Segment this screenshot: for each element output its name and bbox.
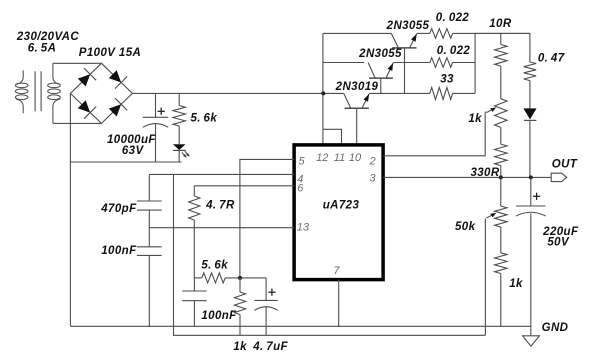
- wire C5 bottom lead: [265, 307, 267, 335]
- wire C1 bottom lead: [155, 124, 157, 162]
- potentiometer P1 1k body: [495, 99, 507, 128]
- wire R3 to right rail / top rail: [453, 32, 530, 34]
- wire R7 to OUT line: [500, 166, 502, 178]
- capacitor C2 470pF: [137, 201, 162, 210]
- wire pin 7 to ground rail: [338, 280, 340, 327]
- wire negative line under filter cap: [70, 161, 181, 163]
- svg-text:3: 3: [370, 173, 377, 185]
- LED D5 indicator: [173, 144, 186, 150]
- capacitor C5 4.7uF: [254, 300, 277, 310]
- svg-text:4. 7R: 4. 7R: [205, 200, 235, 212]
- transformer T1 secondary winding: [48, 63, 61, 123]
- resistor R5 33: [430, 87, 453, 99]
- svg-text:GND: GND: [542, 322, 569, 334]
- bridge rectifier P100V diamond: [70, 63, 132, 123]
- resistor R7 330R: [495, 144, 507, 166]
- capacitor C6 220uF 50V: [516, 206, 546, 216]
- wire lower return rail: [174, 174, 486, 335]
- svg-text:uA723: uA723: [323, 200, 360, 212]
- wire C4 bottom lead: [193, 301, 195, 327]
- wire P2 wiper drop: [484, 219, 486, 336]
- svg-text:0. 022: 0. 022: [436, 12, 470, 24]
- svg-text:2: 2: [369, 155, 376, 167]
- wire D6 to OUT line: [529, 120, 531, 177]
- OUT terminal: [551, 173, 567, 181]
- wire node B row (5.6k row): [194, 277, 202, 279]
- bridge diode D3 (left-bottom): [78, 100, 90, 112]
- resistor R6 10R: [495, 45, 507, 67]
- wire Q2 emitter to R4: [393, 62, 430, 64]
- svg-text:6. 5A: 6. 5A: [28, 43, 57, 55]
- svg-text:50V: 50V: [547, 236, 570, 248]
- capacitor C4 100nF (bottom): [182, 291, 207, 301]
- resistor R12 1k (bottom right): [495, 253, 507, 274]
- svg-text:2N3055: 2N3055: [386, 20, 430, 32]
- transistor Q1 2N3055 (top): [391, 33, 416, 48]
- wire row2 collector rail: [323, 62, 364, 64]
- resistor R4 0.022 (second): [430, 58, 453, 68]
- svg-text:4. 7uF: 4. 7uF: [252, 341, 288, 353]
- svg-text:100nF: 100nF: [201, 310, 237, 322]
- svg-text:1k: 1k: [468, 113, 482, 125]
- junction OUT/diode: [529, 175, 533, 179]
- svg-text:2N3055: 2N3055: [358, 48, 402, 60]
- op-amp regulator U1 uA723 body: [294, 145, 383, 280]
- svg-text:1k: 1k: [509, 278, 523, 290]
- potentiometer P2 wiper arrow: [487, 215, 493, 218]
- wire pin 6 line to R9: [194, 185, 294, 187]
- diode D6: [523, 108, 536, 119]
- capacitor C1 10000uF 63V: [143, 117, 169, 127]
- wire R5 to right rail: [453, 92, 476, 94]
- wire Q3 base to pin 10: [356, 108, 358, 145]
- wire P2 to R12: [500, 227, 502, 253]
- svg-text:10000uF: 10000uF: [107, 134, 156, 146]
- svg-text:5. 6k: 5. 6k: [190, 113, 217, 125]
- wire secondary to bridge AC top: [53, 62, 102, 64]
- wire C6 top lead: [530, 177, 532, 206]
- junction rail/V+: [321, 91, 325, 95]
- wire Q2 base drop: [380, 78, 382, 93]
- svg-text:7: 7: [333, 265, 340, 277]
- wire R11 top lead: [239, 278, 241, 292]
- potentiometer P2 50k body: [495, 206, 507, 227]
- wire pot P1 to R7 330R: [500, 127, 502, 144]
- wire row1 collector rail: [323, 32, 391, 34]
- wire C2 top lead: [148, 174, 150, 201]
- wire R1 top lead: [178, 93, 180, 105]
- wire C3 bottom lead: [148, 255, 150, 326]
- capacitor C3 100nF (left): [137, 247, 162, 256]
- svg-text:10: 10: [349, 152, 362, 164]
- resistor R11 1k (bottom middle): [234, 292, 245, 315]
- svg-text:2N3019: 2N3019: [335, 81, 379, 93]
- wire pin 3 / OUT line: [383, 176, 551, 178]
- svg-text:100nF: 100nF: [101, 245, 137, 257]
- wire 10R to pot P1: [500, 66, 502, 99]
- wire 0.47 to diode D6: [529, 81, 531, 109]
- resistor R1 5.6k: [173, 106, 185, 127]
- svg-text:5: 5: [298, 155, 305, 167]
- svg-text:13: 13: [297, 222, 310, 234]
- wire pin 4 line: [149, 173, 294, 175]
- wire top output rail to 0.47 column: [475, 33, 530, 62]
- svg-text:OUT: OUT: [552, 159, 578, 171]
- wire jog to pin 11: [323, 129, 342, 145]
- svg-text:33: 33: [440, 73, 454, 85]
- wire C6 bottom / GND lead: [530, 214, 532, 336]
- svg-text:10R: 10R: [489, 18, 512, 30]
- transformer T1 core: [35, 71, 41, 111]
- wire right emitter rail vertical: [474, 33, 476, 93]
- wire R9 bottom to node B: [193, 220, 195, 278]
- wire R11 bottom lead: [239, 315, 241, 336]
- svg-text:11: 11: [334, 152, 345, 164]
- resistor R3 0.022 (top): [430, 29, 453, 39]
- wire Q1 emitter to R3: [417, 32, 430, 34]
- wire R10 to node A: [225, 277, 266, 279]
- wire R1 to LED: [178, 126, 180, 144]
- wire OUT to pot P2: [500, 177, 502, 206]
- bridge diode D4 (bottom-right): [109, 104, 121, 116]
- transformer T1 primary winding: [15, 70, 28, 113]
- svg-text:230/20VAC: 230/20VAC: [16, 31, 79, 43]
- wire R9 top lead: [193, 186, 195, 196]
- resistor R10 5.6k (bottom): [202, 273, 225, 283]
- wire C4 top lead: [193, 278, 195, 291]
- svg-text:12: 12: [316, 152, 328, 164]
- wire Q3 emitter to R5: [369, 92, 430, 94]
- svg-text:5. 6k: 5. 6k: [201, 259, 228, 271]
- bridge diode D2 (top-right): [109, 70, 121, 82]
- wire left collector rail vertical / V+ to pin 12: [322, 33, 324, 144]
- wire pin 2 to pot P1 wiper: [383, 112, 485, 156]
- wire C2/C3 mid leads: [148, 210, 150, 247]
- wire C5 top lead: [265, 278, 267, 301]
- wire Q1 base drop: [404, 48, 406, 94]
- svg-text:50k: 50k: [455, 221, 476, 233]
- svg-text:0. 022: 0. 022: [437, 45, 471, 57]
- wire ground rail: [70, 325, 530, 327]
- wire pin 13 line: [149, 227, 294, 229]
- wire C1 top lead: [155, 93, 157, 117]
- junction node A: [238, 276, 242, 280]
- wire R12 to ground rail: [500, 274, 502, 327]
- svg-text:P100V 15A: P100V 15A: [79, 47, 141, 59]
- wire 10R top lead: [500, 33, 502, 44]
- svg-text:0. 47: 0. 47: [538, 52, 565, 64]
- svg-text:6: 6: [297, 183, 304, 195]
- transistor Q3 2N3019 (driver): [344, 93, 369, 108]
- resistor R8 0.47: [524, 62, 536, 81]
- wire main unregulated rail: [132, 92, 343, 94]
- svg-text:470pF: 470pF: [100, 203, 137, 215]
- ground symbol GND: [523, 336, 540, 346]
- wire LED bottom lead: [178, 150, 180, 162]
- wire R4 to right rail: [453, 62, 476, 64]
- wire pin 5 line and drop to node A: [240, 159, 294, 278]
- potentiometer P1 wiper arrow: [486, 109, 492, 112]
- wire bridge negative down to ground rail: [69, 93, 71, 326]
- svg-text:63V: 63V: [122, 145, 145, 157]
- resistor R9 4.7R: [189, 196, 200, 220]
- bridge diode D1 (left-top): [78, 74, 90, 86]
- svg-text:1k: 1k: [233, 341, 247, 353]
- transistor Q2 2N3055 (middle): [368, 63, 393, 79]
- wire secondary to bridge AC bottom: [53, 122, 102, 124]
- junction OUT/330R: [499, 175, 503, 179]
